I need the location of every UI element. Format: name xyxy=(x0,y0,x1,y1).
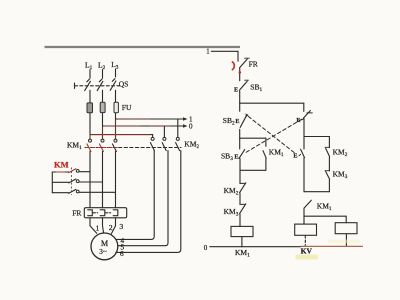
svg-text:3~: 3~ xyxy=(99,248,107,256)
svg-text:E: E xyxy=(234,86,238,93)
svg-text:KM2: KM2 xyxy=(184,139,199,150)
svg-text:1: 1 xyxy=(206,48,209,55)
svg-text:KM1: KM1 xyxy=(235,248,250,258)
svg-text:FR: FR xyxy=(249,59,258,68)
svg-text:KM1: KM1 xyxy=(67,140,82,151)
svg-text:KM3: KM3 xyxy=(333,169,348,180)
svg-text:FU: FU xyxy=(122,103,132,112)
svg-text:L1: L1 xyxy=(85,61,93,72)
svg-text:KM2: KM2 xyxy=(333,147,348,158)
svg-text:SB3: SB3 xyxy=(221,152,233,163)
svg-text:KM: KM xyxy=(54,160,69,170)
svg-text:KM2: KM2 xyxy=(224,186,239,197)
svg-text:6: 6 xyxy=(120,249,124,258)
svg-text:E: E xyxy=(235,118,239,125)
svg-text:E: E xyxy=(234,154,238,161)
svg-text:KV: KV xyxy=(301,246,313,255)
svg-text:L3: L3 xyxy=(111,60,119,71)
svg-text:SB1: SB1 xyxy=(250,82,262,93)
svg-text:FR: FR xyxy=(72,209,81,218)
svg-text:QS: QS xyxy=(119,79,129,88)
svg-text:E: E xyxy=(296,117,300,124)
svg-text:KM1: KM1 xyxy=(269,148,284,159)
svg-text:KM1: KM1 xyxy=(317,201,332,212)
svg-text:2: 2 xyxy=(109,223,113,232)
svg-text:M: M xyxy=(101,239,108,248)
svg-text:0: 0 xyxy=(189,122,193,130)
svg-text:1: 1 xyxy=(95,224,99,233)
svg-text:L2: L2 xyxy=(98,61,106,72)
svg-text:E: E xyxy=(293,153,297,160)
svg-text:SB2: SB2 xyxy=(223,116,235,127)
svg-text:0: 0 xyxy=(204,244,208,252)
svg-text:3: 3 xyxy=(119,222,123,231)
svg-text:KM3: KM3 xyxy=(224,207,239,218)
